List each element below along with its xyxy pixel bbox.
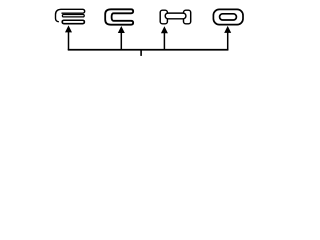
arrow 2 (to C) <box>118 26 125 50</box>
letter C <box>105 9 133 24</box>
wire: center input stub <box>140 50 142 56</box>
letter O <box>213 9 243 24</box>
arrow 3 (to H) <box>161 26 168 50</box>
letter H <box>160 10 191 24</box>
arrow 4 (to O) <box>224 26 231 50</box>
arrow 1 (to E) <box>65 25 72 50</box>
wire: horizontal bus line <box>68 49 229 51</box>
letter E <box>56 9 85 22</box>
